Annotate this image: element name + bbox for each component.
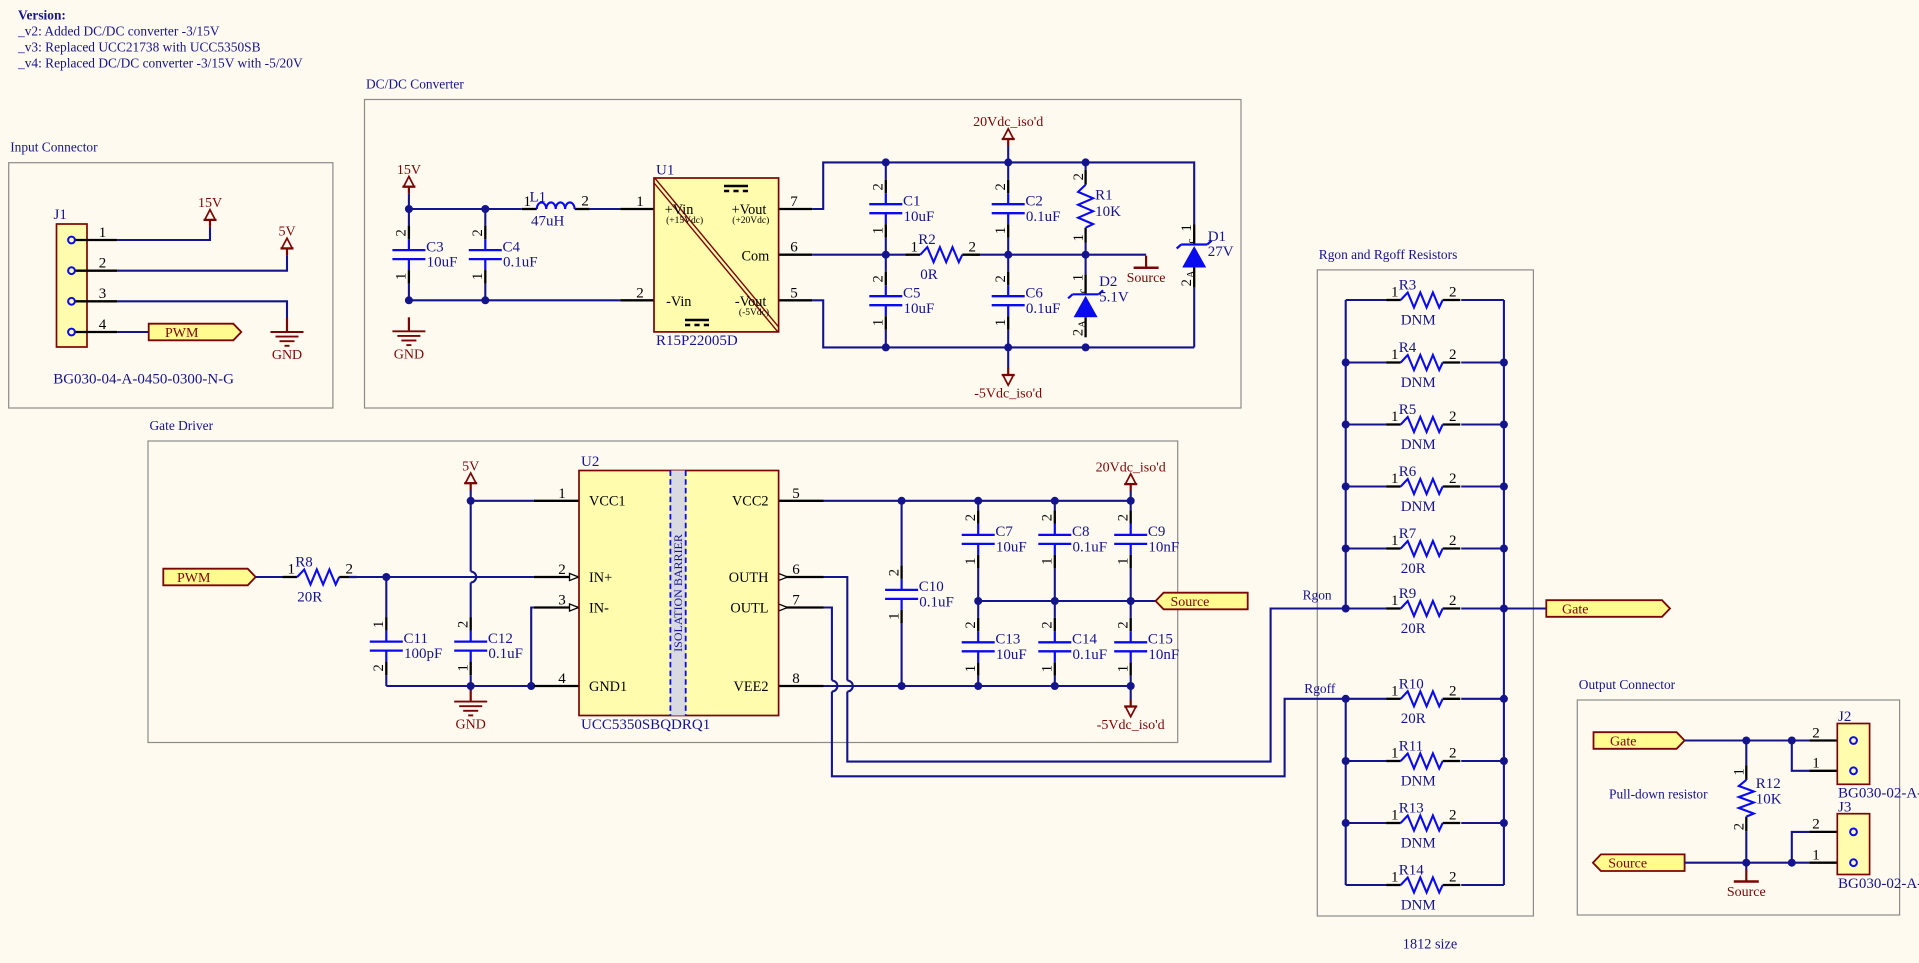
svg-text:8: 8: [792, 671, 800, 687]
svg-text:1: 1: [1391, 808, 1399, 824]
svg-text:2: 2: [371, 664, 387, 671]
svg-text:ISOLATION BARRIER: ISOLATION BARRIER: [671, 534, 685, 652]
svg-text:1: 1: [911, 239, 919, 255]
svg-text:Gate Driver: Gate Driver: [150, 418, 214, 433]
svg-text:R12: R12: [1756, 776, 1781, 792]
svg-text:2: 2: [345, 562, 353, 578]
svg-text:47uH: 47uH: [531, 214, 565, 230]
svg-text:R4: R4: [1399, 340, 1417, 356]
svg-text:DNM: DNM: [1401, 897, 1436, 913]
svg-text:5V: 5V: [462, 459, 479, 474]
svg-text:1: 1: [1391, 593, 1399, 609]
svg-text:2: 2: [1115, 514, 1131, 521]
svg-text:3: 3: [99, 286, 107, 302]
svg-text:2: 2: [993, 183, 1009, 190]
svg-text:2: 2: [1449, 593, 1457, 609]
svg-text:C4: C4: [503, 239, 521, 255]
svg-text:_v3: Replaced UCC21738 with UC: _v3: Replaced UCC21738 with UCC5350SB: [17, 40, 261, 55]
svg-text:2: 2: [1070, 329, 1086, 336]
svg-text:BG030-04-A-0450-0300-N-G: BG030-04-A-0450-0300-N-G: [53, 372, 234, 388]
svg-text:A: A: [1186, 270, 1197, 278]
svg-text:VCC2: VCC2: [732, 494, 769, 510]
svg-text:C3: C3: [426, 239, 444, 255]
svg-text:R8: R8: [295, 555, 313, 571]
svg-text:BG030-02-A-0450-0300-N-G: BG030-02-A-0450-0300-N-G: [1838, 876, 1919, 892]
svg-text:GND: GND: [456, 718, 486, 733]
svg-text:U1: U1: [656, 163, 674, 179]
svg-text:4: 4: [558, 671, 566, 687]
svg-text:C10: C10: [919, 579, 944, 595]
svg-text:R3: R3: [1399, 278, 1417, 294]
svg-text:20R: 20R: [297, 589, 322, 605]
svg-text:1: 1: [1391, 746, 1399, 762]
svg-text:1: 1: [558, 486, 566, 502]
svg-text:1: 1: [1391, 533, 1399, 549]
svg-text:0R: 0R: [920, 267, 938, 283]
svg-text:J2: J2: [1838, 709, 1851, 725]
svg-text:2: 2: [871, 275, 887, 282]
svg-text:C15: C15: [1148, 632, 1173, 648]
svg-text:Rgoff: Rgoff: [1304, 681, 1336, 696]
svg-text:1: 1: [470, 273, 486, 280]
svg-text:DNM: DNM: [1401, 437, 1436, 453]
svg-text:1: 1: [1071, 234, 1087, 241]
svg-text:0.1uF: 0.1uF: [1073, 540, 1108, 556]
svg-text:27V: 27V: [1208, 244, 1234, 260]
svg-text:J3: J3: [1838, 799, 1851, 815]
svg-text:1: 1: [287, 562, 295, 578]
svg-text:1: 1: [371, 621, 387, 628]
svg-text:IN-: IN-: [589, 600, 609, 616]
svg-text:C14: C14: [1072, 632, 1098, 648]
svg-text:1: 1: [455, 664, 471, 671]
svg-text:Input Connector: Input Connector: [10, 140, 98, 155]
svg-text:D1: D1: [1208, 229, 1226, 245]
svg-text:2: 2: [871, 183, 887, 190]
svg-text:1: 1: [1040, 558, 1056, 565]
svg-text:1: 1: [1115, 558, 1131, 565]
svg-text:10uF: 10uF: [904, 301, 935, 317]
svg-text:R14: R14: [1399, 863, 1425, 879]
svg-text:1: 1: [963, 558, 979, 565]
svg-text:R9: R9: [1399, 586, 1417, 602]
svg-text:DNM: DNM: [1401, 499, 1436, 515]
svg-text:2: 2: [963, 514, 979, 521]
svg-text:1: 1: [1391, 683, 1399, 699]
svg-text:Gate: Gate: [1610, 734, 1636, 749]
svg-text:10uF: 10uF: [427, 255, 458, 271]
svg-text:GND: GND: [394, 347, 424, 362]
svg-text:Rgon: Rgon: [1303, 588, 1332, 603]
svg-text:R2: R2: [918, 232, 936, 248]
svg-text:2: 2: [1449, 808, 1457, 824]
svg-text:5.1V: 5.1V: [1099, 290, 1129, 306]
svg-text:-5Vdc_iso'd: -5Vdc_iso'd: [974, 387, 1042, 402]
svg-text:2: 2: [394, 229, 410, 236]
svg-text:10uF: 10uF: [996, 647, 1027, 663]
svg-text:Gate: Gate: [1562, 602, 1588, 617]
svg-text:2: 2: [1449, 347, 1457, 363]
svg-text:Source: Source: [1127, 271, 1166, 286]
svg-text:20Vdc_iso'd: 20Vdc_iso'd: [1096, 460, 1166, 475]
svg-text:R15P22005D: R15P22005D: [656, 333, 738, 349]
svg-text:UCC5350SBQDRQ1: UCC5350SBQDRQ1: [581, 717, 710, 733]
svg-text:1: 1: [99, 225, 107, 241]
svg-text:C6: C6: [1025, 286, 1043, 302]
svg-text:R1: R1: [1095, 188, 1113, 204]
svg-text:VCC1: VCC1: [589, 494, 626, 510]
svg-text:2: 2: [1732, 823, 1748, 830]
svg-text:6: 6: [790, 240, 798, 256]
svg-text:C7: C7: [995, 524, 1013, 540]
svg-text:C2: C2: [1025, 194, 1043, 210]
svg-text:2: 2: [1040, 514, 1056, 521]
svg-text:0.1uF: 0.1uF: [488, 646, 523, 662]
svg-text:(+15Vdc): (+15Vdc): [666, 215, 703, 226]
svg-text:1: 1: [1115, 665, 1131, 672]
svg-text:D2: D2: [1099, 274, 1117, 290]
svg-text:1: 1: [993, 227, 1009, 234]
svg-text:1: 1: [1732, 768, 1748, 775]
svg-text:C1: C1: [903, 194, 921, 210]
svg-text:(-5Vdc): (-5Vdc): [739, 307, 769, 318]
svg-text:DNM: DNM: [1401, 773, 1436, 789]
svg-text:Version:: Version:: [18, 8, 66, 23]
svg-text:C9: C9: [1148, 524, 1166, 540]
svg-text:20Vdc_iso'd: 20Vdc_iso'd: [973, 115, 1043, 130]
svg-text:c: c: [1186, 238, 1197, 243]
svg-text:2: 2: [455, 621, 471, 628]
svg-text:OUTL: OUTL: [730, 600, 768, 616]
svg-text:1: 1: [993, 319, 1009, 326]
svg-text:2: 2: [969, 239, 977, 255]
svg-text:_v2: Added DC/DC converter -3/: _v2: Added DC/DC converter -3/15V: [17, 24, 220, 39]
svg-text:20R: 20R: [1401, 621, 1426, 637]
svg-text:C8: C8: [1072, 524, 1090, 540]
svg-text:0.1uF: 0.1uF: [919, 595, 954, 611]
svg-text:c: c: [1077, 288, 1088, 293]
svg-text:10nF: 10nF: [1148, 647, 1179, 663]
svg-text:1812 size: 1812 size: [1403, 937, 1457, 953]
svg-text:C12: C12: [488, 631, 513, 647]
svg-text:2: 2: [1115, 621, 1131, 628]
svg-text:0.1uF: 0.1uF: [503, 255, 538, 271]
svg-text:R6: R6: [1399, 464, 1417, 480]
svg-text:2: 2: [1812, 817, 1820, 833]
svg-text:Pull-down resistor: Pull-down resistor: [1609, 787, 1708, 802]
svg-text:1: 1: [1391, 347, 1399, 363]
svg-text:1: 1: [886, 613, 902, 620]
svg-text:2: 2: [1449, 870, 1457, 886]
svg-text:1: 1: [1070, 274, 1086, 281]
svg-text:1: 1: [871, 227, 887, 234]
svg-text:7: 7: [792, 593, 800, 609]
svg-text:0.1uF: 0.1uF: [1026, 301, 1061, 317]
svg-text:2: 2: [1449, 409, 1457, 425]
svg-text:C5: C5: [903, 286, 921, 302]
svg-text:2: 2: [1812, 725, 1820, 741]
svg-text:1: 1: [636, 194, 644, 210]
svg-text:10uF: 10uF: [996, 540, 1027, 556]
svg-text:2: 2: [1449, 683, 1457, 699]
svg-text:PWM: PWM: [177, 571, 211, 586]
svg-text:1: 1: [1391, 409, 1399, 425]
svg-text:2: 2: [993, 275, 1009, 282]
svg-text:R10: R10: [1399, 676, 1424, 692]
svg-text:C13: C13: [995, 632, 1020, 648]
svg-text:0.1uF: 0.1uF: [1073, 647, 1108, 663]
svg-text:2: 2: [1449, 285, 1457, 301]
svg-text:Rgon and Rgoff Resistors: Rgon and Rgoff Resistors: [1319, 247, 1458, 262]
svg-text:Source: Source: [1608, 857, 1647, 872]
svg-text:Source: Source: [1171, 595, 1210, 610]
svg-text:2: 2: [1179, 279, 1195, 286]
svg-text:2: 2: [470, 229, 486, 236]
svg-text:Output Connector: Output Connector: [1579, 677, 1676, 692]
svg-text:1: 1: [1040, 665, 1056, 672]
svg-text:R11: R11: [1399, 739, 1423, 755]
svg-text:15V: 15V: [397, 163, 421, 178]
svg-text:1: 1: [871, 319, 887, 326]
svg-text:5V: 5V: [278, 225, 295, 240]
svg-text:Com: Com: [741, 248, 769, 264]
svg-text:0.1uF: 0.1uF: [1026, 209, 1061, 225]
svg-text:DNM: DNM: [1401, 312, 1436, 328]
svg-text:5: 5: [790, 285, 798, 301]
svg-text:15V: 15V: [198, 196, 222, 211]
svg-text:10nF: 10nF: [1148, 540, 1179, 556]
svg-text:U2: U2: [581, 454, 599, 470]
svg-text:GND1: GND1: [589, 679, 627, 695]
svg-text:1: 1: [1391, 471, 1399, 487]
svg-text:2: 2: [558, 562, 566, 578]
svg-text:1: 1: [1179, 224, 1195, 231]
svg-text:2: 2: [99, 256, 107, 272]
svg-text:2: 2: [1040, 621, 1056, 628]
svg-text:2: 2: [1449, 533, 1457, 549]
svg-text:2: 2: [636, 285, 644, 301]
svg-text:A: A: [1077, 320, 1088, 328]
svg-text:DNM: DNM: [1401, 375, 1436, 391]
svg-text:10K: 10K: [1095, 204, 1121, 220]
svg-text:5: 5: [792, 486, 800, 502]
svg-text:_v4: Replaced DC/DC converter: _v4: Replaced DC/DC converter -3/15V wit…: [17, 56, 303, 71]
svg-text:2: 2: [1071, 173, 1087, 180]
svg-text:1: 1: [1812, 756, 1820, 772]
svg-text:10uF: 10uF: [904, 209, 935, 225]
svg-text:L1: L1: [530, 190, 547, 206]
svg-text:R13: R13: [1399, 801, 1424, 817]
svg-text:6: 6: [792, 562, 800, 578]
svg-text:VEE2: VEE2: [734, 679, 769, 695]
svg-text:2: 2: [1449, 746, 1457, 762]
svg-text:-5Vdc_iso'd: -5Vdc_iso'd: [1097, 718, 1165, 733]
svg-text:20R: 20R: [1401, 711, 1426, 727]
svg-text:20R: 20R: [1401, 561, 1426, 577]
svg-text:PWM: PWM: [165, 326, 199, 341]
svg-text:R5: R5: [1399, 402, 1417, 418]
svg-text:-Vin: -Vin: [666, 294, 691, 310]
svg-text:1: 1: [1812, 847, 1820, 863]
svg-text:C11: C11: [404, 631, 428, 647]
svg-text:OUTH: OUTH: [729, 570, 769, 586]
svg-text:3: 3: [558, 593, 566, 609]
svg-text:IN+: IN+: [589, 570, 612, 586]
svg-text:10K: 10K: [1756, 791, 1782, 807]
svg-text:100pF: 100pF: [404, 646, 442, 662]
svg-text:DC/DC Converter: DC/DC Converter: [366, 77, 464, 92]
svg-text:(+20Vdc): (+20Vdc): [732, 215, 769, 226]
svg-text:Source: Source: [1727, 885, 1766, 900]
svg-text:4: 4: [99, 317, 107, 333]
svg-text:GND: GND: [272, 348, 302, 363]
svg-text:1: 1: [963, 665, 979, 672]
svg-text:1: 1: [1391, 870, 1399, 886]
svg-text:2: 2: [886, 569, 902, 576]
svg-text:1: 1: [394, 273, 410, 280]
svg-text:J1: J1: [54, 207, 67, 223]
svg-text:7: 7: [790, 194, 798, 210]
svg-text:R7: R7: [1399, 526, 1417, 542]
svg-text:2: 2: [963, 621, 979, 628]
svg-text:DNM: DNM: [1401, 835, 1436, 851]
svg-text:2: 2: [1449, 471, 1457, 487]
svg-text:2: 2: [581, 194, 589, 210]
svg-text:1: 1: [1391, 285, 1399, 301]
